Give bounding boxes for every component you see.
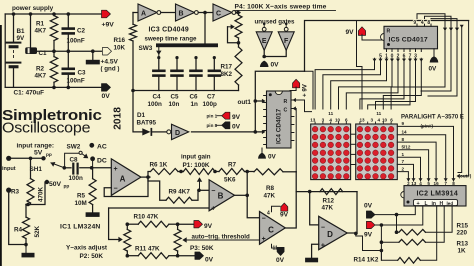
ground R5	[86, 212, 100, 217]
svg-text:R11 47K: R11 47K	[135, 246, 160, 253]
potentiometer P4	[238, 13, 240, 16]
wire trigger node	[296, 191, 357, 193]
IC4 left pins	[264, 95, 267, 97]
svg-text:D: D	[327, 230, 333, 239]
svg-text:R7: R7	[228, 162, 237, 169]
capacitor C1	[30, 14, 32, 47]
svg-text:9V: 9V	[364, 232, 373, 239]
svg-text:IC2 LM3914: IC2 LM3914	[417, 191, 459, 198]
svg-text:220: 220	[457, 230, 468, 237]
svg-text:50V: 50V	[49, 181, 62, 188]
IC4 chip CD4017	[267, 91, 292, 148]
svg-text:9V: 9V	[280, 212, 289, 219]
svg-text:8: 8	[427, 20, 430, 26]
svg-text:5V: 5V	[34, 150, 43, 157]
inverter D	[167, 130, 171, 134]
svg-text:unused gates: unused gates	[255, 19, 295, 26]
svg-text:( gnd ): ( gnd )	[101, 66, 120, 73]
wire B out	[235, 194, 248, 196]
svg-text:4K7: 4K7	[35, 28, 47, 35]
svg-text:(out#): (out#)	[459, 174, 472, 179]
svg-text:+4.5V: +4.5V	[101, 59, 119, 66]
inverter A	[138, 4, 157, 21]
gnd reference bar	[92, 51, 94, 60]
svg-text:B1: B1	[17, 28, 26, 35]
svg-text:4: 4	[419, 181, 422, 186]
svg-text:+9V: +9V	[102, 22, 115, 29]
svg-text:DC: DC	[97, 158, 107, 165]
svg-text:10: 10	[382, 118, 388, 123]
SW3 wiper arrow	[158, 47, 160, 56]
svg-text:1K: 1K	[458, 248, 467, 255]
svg-text:pp: pp	[46, 153, 52, 158]
svg-text:−: −	[262, 216, 266, 223]
P2 wiper	[109, 208, 118, 240]
svg-text:R17: R17	[221, 64, 233, 71]
op-amp A	[111, 159, 141, 196]
svg-text:input gain: input gain	[181, 154, 211, 161]
svg-text:C5: C5	[171, 94, 180, 101]
wire 0V to IC2	[375, 206, 415, 215]
svg-text:9V: 9V	[346, 29, 355, 36]
display column stubs	[314, 122, 316, 124]
svg-text:C8: C8	[70, 157, 79, 164]
terminal +4.5V	[103, 47, 112, 55]
wire A out to B	[161, 12, 176, 14]
LED matrix block 2	[356, 124, 398, 180]
svg-text:10M: 10M	[75, 200, 87, 207]
svg-text:AC: AC	[97, 144, 107, 151]
inverter B	[176, 4, 195, 21]
svg-text:+: +	[417, 201, 420, 207]
wire DC to signal	[92, 159, 94, 168]
svg-text:R13: R13	[457, 241, 469, 248]
svg-text:100n: 100n	[69, 175, 84, 182]
svg-text:C6: C6	[190, 94, 199, 101]
svg-text:−: −	[321, 224, 325, 231]
terminal 0V power	[102, 84, 111, 92]
svg-text:A: A	[141, 11, 146, 18]
svg-text:Y−axis adjust: Y−axis adjust	[66, 245, 108, 252]
wire R7 to B out	[246, 172, 248, 196]
svg-text:PARALIGHT A−3570 E: PARALIGHT A−3570 E	[401, 115, 464, 121]
wire D out to out1	[192, 131, 264, 133]
svg-text:R1: R1	[36, 21, 45, 28]
svg-text:470K: 470K	[38, 186, 45, 202]
ground IC5 0V	[433, 49, 435, 56]
svg-text:R10 47K: R10 47K	[134, 214, 159, 221]
svg-text:C7: C7	[207, 94, 216, 101]
svg-text:11: 11	[376, 111, 381, 116]
wire B out to C	[198, 12, 213, 14]
capacitor C6	[195, 58, 197, 70]
svg-text:Oscilloscope: Oscilloscope	[2, 120, 90, 136]
ground IC4 0V	[261, 148, 263, 153]
potentiometer P3	[177, 224, 179, 229]
svg-text:C3: C3	[78, 70, 87, 77]
border strip left	[0, 25, 2, 266]
svg-text:IC3 CD4049: IC3 CD4049	[149, 27, 189, 34]
svg-text:0V: 0V	[364, 203, 373, 210]
svg-text:47K: 47K	[264, 193, 276, 200]
ground R4	[22, 253, 35, 258]
svg-text:0V: 0V	[268, 154, 277, 161]
svg-text:R12: R12	[323, 198, 335, 205]
wire A feedback	[104, 177, 148, 196]
wires IC5 top pins to right bus	[416, 24, 418, 26]
svg-text:1n: 1n	[191, 101, 199, 108]
wire D out to R14	[356, 233, 382, 260]
svg-text:B: B	[178, 11, 183, 18]
svg-text:9V: 9V	[204, 223, 213, 230]
wire C out to IC4 clock	[285, 172, 296, 228]
IC4 right pins	[291, 116, 294, 118]
svg-text:H: H	[440, 201, 444, 207]
capacitor C2	[67, 14, 69, 27]
svg-text:C: C	[216, 11, 221, 18]
svg-text:IC4 CD4017: IC4 CD4017	[276, 108, 283, 144]
wire D out	[347, 232, 357, 234]
capacitor C3	[67, 51, 69, 67]
svg-text:9V: 9V	[17, 35, 26, 42]
wire B+ from P2	[109, 207, 210, 209]
svg-text:5/12: 5/12	[402, 145, 411, 150]
wire input to SH1	[9, 157, 44, 159]
svg-text:A: A	[120, 175, 126, 184]
wire C out	[236, 12, 240, 14]
svg-text:1: 1	[402, 152, 405, 157]
svg-text:L: L	[425, 201, 428, 207]
svg-text:13: 13	[411, 181, 417, 186]
svg-text:R4: R4	[14, 227, 23, 234]
terminal 0V trigger	[178, 255, 195, 257]
svg-text:11: 11	[328, 111, 333, 116]
contact 50V pp	[45, 180, 49, 184]
svg-text:sweep time range: sweep time range	[145, 36, 197, 43]
wire mid rail +4.5V	[37, 50, 54, 53]
node contacts	[157, 56, 160, 59]
P3 wiper	[182, 237, 186, 242]
svg-text:0V: 0V	[102, 93, 111, 100]
svg-text:auto−trig. threshold: auto−trig. threshold	[192, 233, 250, 240]
svg-text:−: −	[113, 185, 117, 192]
wire input- to ground	[9, 190, 26, 244]
wire A out	[141, 176, 150, 178]
wire D+ to ground	[312, 244, 319, 258]
svg-text:0V: 0V	[232, 124, 241, 131]
terminal +9V	[102, 10, 111, 18]
svg-text:2: 2	[402, 166, 405, 171]
wire B- input	[198, 189, 209, 191]
svg-text:(pin#): (pin#)	[421, 124, 434, 129]
capacitor C7	[213, 58, 215, 70]
IC5 chip CD4017	[384, 26, 438, 49]
svg-text:100nF: 100nF	[67, 78, 85, 85]
svg-text:0V: 0V	[205, 257, 214, 264]
svg-text:5: 5	[427, 181, 430, 186]
svg-text:9: 9	[402, 121, 405, 126]
svg-text:100nF: 100nF	[67, 38, 85, 45]
svg-text:+: +	[262, 236, 266, 243]
svg-text:P4: 100K X−axis sweep time: P4: 100K X−axis sweep time	[235, 4, 327, 11]
svg-text:14: 14	[402, 130, 408, 135]
wire B out to C-	[247, 195, 259, 217]
wire +4.5V to inverter A input	[133, 12, 138, 14]
svg-text:BAT95: BAT95	[137, 120, 157, 127]
svg-text:F: F	[284, 38, 289, 45]
svg-text:R: R	[387, 29, 391, 35]
svg-text:−: −	[211, 188, 215, 195]
svg-text:input range:: input range:	[17, 143, 55, 150]
LED matrix block 1	[311, 124, 351, 180]
svg-text:P2: 50K: P2: 50K	[80, 253, 104, 260]
svg-text:R2: R2	[36, 66, 45, 73]
svg-text:D1: D1	[137, 112, 146, 119]
terminal 9V right	[366, 221, 375, 228]
terminal 9V trigger	[178, 223, 194, 225]
wire cap rail	[133, 90, 239, 92]
svg-text:8K2: 8K2	[221, 71, 233, 78]
svg-text:4: 4	[421, 20, 424, 26]
svg-text:C4: C4	[153, 94, 162, 101]
svg-text:pin 1: pin 1	[207, 114, 218, 119]
svg-text:R14 1K2: R14 1K2	[354, 257, 379, 264]
input terminal bottom	[6, 188, 11, 193]
svg-text:R6 1K: R6 1K	[150, 162, 168, 169]
capacitor C5	[176, 58, 178, 70]
svg-text:IC5 CD4017: IC5 CD4017	[389, 37, 428, 44]
svg-text:input: input	[2, 166, 16, 172]
svg-text:led: led	[447, 201, 454, 206]
wire out1 to block1 pin13	[305, 71, 314, 109]
svg-text:9V: 9V	[232, 114, 241, 121]
svg-text:4: 4	[267, 211, 270, 217]
wire 50Vpp tap	[26, 182, 47, 205]
svg-text:P1: 100K: P1: 100K	[183, 162, 210, 169]
IC2 chip LM3914	[404, 186, 466, 206]
P4 wiper	[228, 27, 239, 43]
svg-text:R9 4K7: R9 4K7	[169, 189, 191, 196]
svg-text:out1: out1	[238, 99, 252, 106]
svg-text:E: E	[262, 38, 267, 45]
svg-text:10: 10	[335, 118, 341, 123]
inverter E	[262, 27, 266, 31]
svg-text:8: 8	[452, 181, 455, 186]
svg-text:52K: 52K	[34, 225, 41, 237]
op-amp D	[319, 216, 348, 249]
svg-text:7: 7	[444, 181, 447, 186]
block interconnect wires	[351, 133, 356, 135]
svg-text:C2: C2	[77, 28, 86, 35]
svg-text:+: +	[211, 205, 215, 212]
svg-text:C: C	[284, 108, 288, 114]
svg-text:7: 7	[402, 159, 405, 164]
svg-text:100n: 100n	[148, 101, 163, 108]
svg-text:D: D	[175, 130, 180, 137]
svg-text:5K6: 5K6	[224, 177, 236, 184]
svg-text:pp: pp	[64, 185, 70, 190]
svg-text:R3: R3	[11, 189, 20, 196]
IC2 function box	[414, 200, 458, 206]
svg-text:SH1: SH1	[30, 166, 43, 173]
svg-text:P3: 50K: P3: 50K	[190, 245, 214, 252]
input terminal top	[6, 156, 11, 161]
ground EF 0V	[260, 61, 269, 67]
svg-text:100p: 100p	[203, 101, 218, 108]
svg-text:2018: 2018	[113, 107, 124, 130]
capacitor C4	[158, 58, 160, 70]
wire left rail	[4, 14, 6, 87]
wires out# to IC2	[458, 21, 469, 177]
svg-text:R8: R8	[266, 185, 275, 192]
svg-text:in: in	[432, 201, 436, 207]
wire D- input	[310, 192, 319, 225]
svg-text:47K: 47K	[322, 205, 334, 212]
P1 wiper	[197, 177, 202, 181]
terminal 9V IC4	[293, 79, 300, 88]
svg-text:16: 16	[434, 181, 440, 186]
svg-text:4K7: 4K7	[35, 73, 47, 80]
svg-text:IC1 LM324N: IC1 LM324N	[60, 224, 101, 231]
svg-text:C: C	[268, 226, 274, 235]
svg-text:SW2: SW2	[67, 144, 81, 151]
svg-text:R16: R16	[114, 37, 126, 44]
op-amp B	[209, 180, 234, 211]
svg-text:pin 8: pin 8	[207, 123, 218, 128]
svg-text:2: 2	[407, 181, 410, 186]
svg-text:10n: 10n	[169, 101, 180, 108]
op-amp C	[260, 212, 286, 245]
gate input stubs	[263, 24, 265, 27]
svg-text:8: 8	[402, 137, 405, 142]
svg-text:SW3: SW3	[139, 45, 153, 52]
svg-text:0V: 0V	[429, 66, 438, 73]
wires IC5 outputs to display columns	[315, 58, 374, 109]
svg-text:+: +	[113, 166, 117, 173]
svg-text:+: +	[321, 243, 325, 250]
svg-text:10K: 10K	[114, 45, 126, 52]
svg-text:R15: R15	[457, 223, 469, 230]
svg-text:0V: 0V	[276, 257, 285, 264]
svg-text:C1: 470uF: C1: 470uF	[14, 90, 45, 97]
contact AC	[89, 143, 94, 148]
svg-text:R5: R5	[77, 193, 86, 200]
inverter F	[284, 27, 288, 31]
wire EF to ground	[263, 50, 265, 56]
contact DC	[90, 156, 95, 161]
wire 9V to IC2	[375, 206, 423, 225]
svg-text:0V: 0V	[271, 62, 280, 69]
wire bottom rail	[5, 86, 101, 88]
svg-text:power supply: power supply	[12, 5, 54, 12]
inverter C	[213, 4, 232, 21]
SW2 wiper	[79, 151, 82, 154]
wire block2 pin13 feed	[357, 21, 363, 110]
svg-text:+ 9V: + 9V	[301, 83, 308, 97]
svg-text:9: 9	[413, 20, 416, 26]
wires display rows to IC2 pins	[397, 126, 453, 181]
svg-text:3: 3	[371, 118, 374, 123]
svg-text:R: R	[284, 99, 288, 105]
svg-text:B: B	[218, 192, 224, 201]
svg-text:4: 4	[378, 118, 381, 123]
wire top rail	[5, 13, 101, 15]
